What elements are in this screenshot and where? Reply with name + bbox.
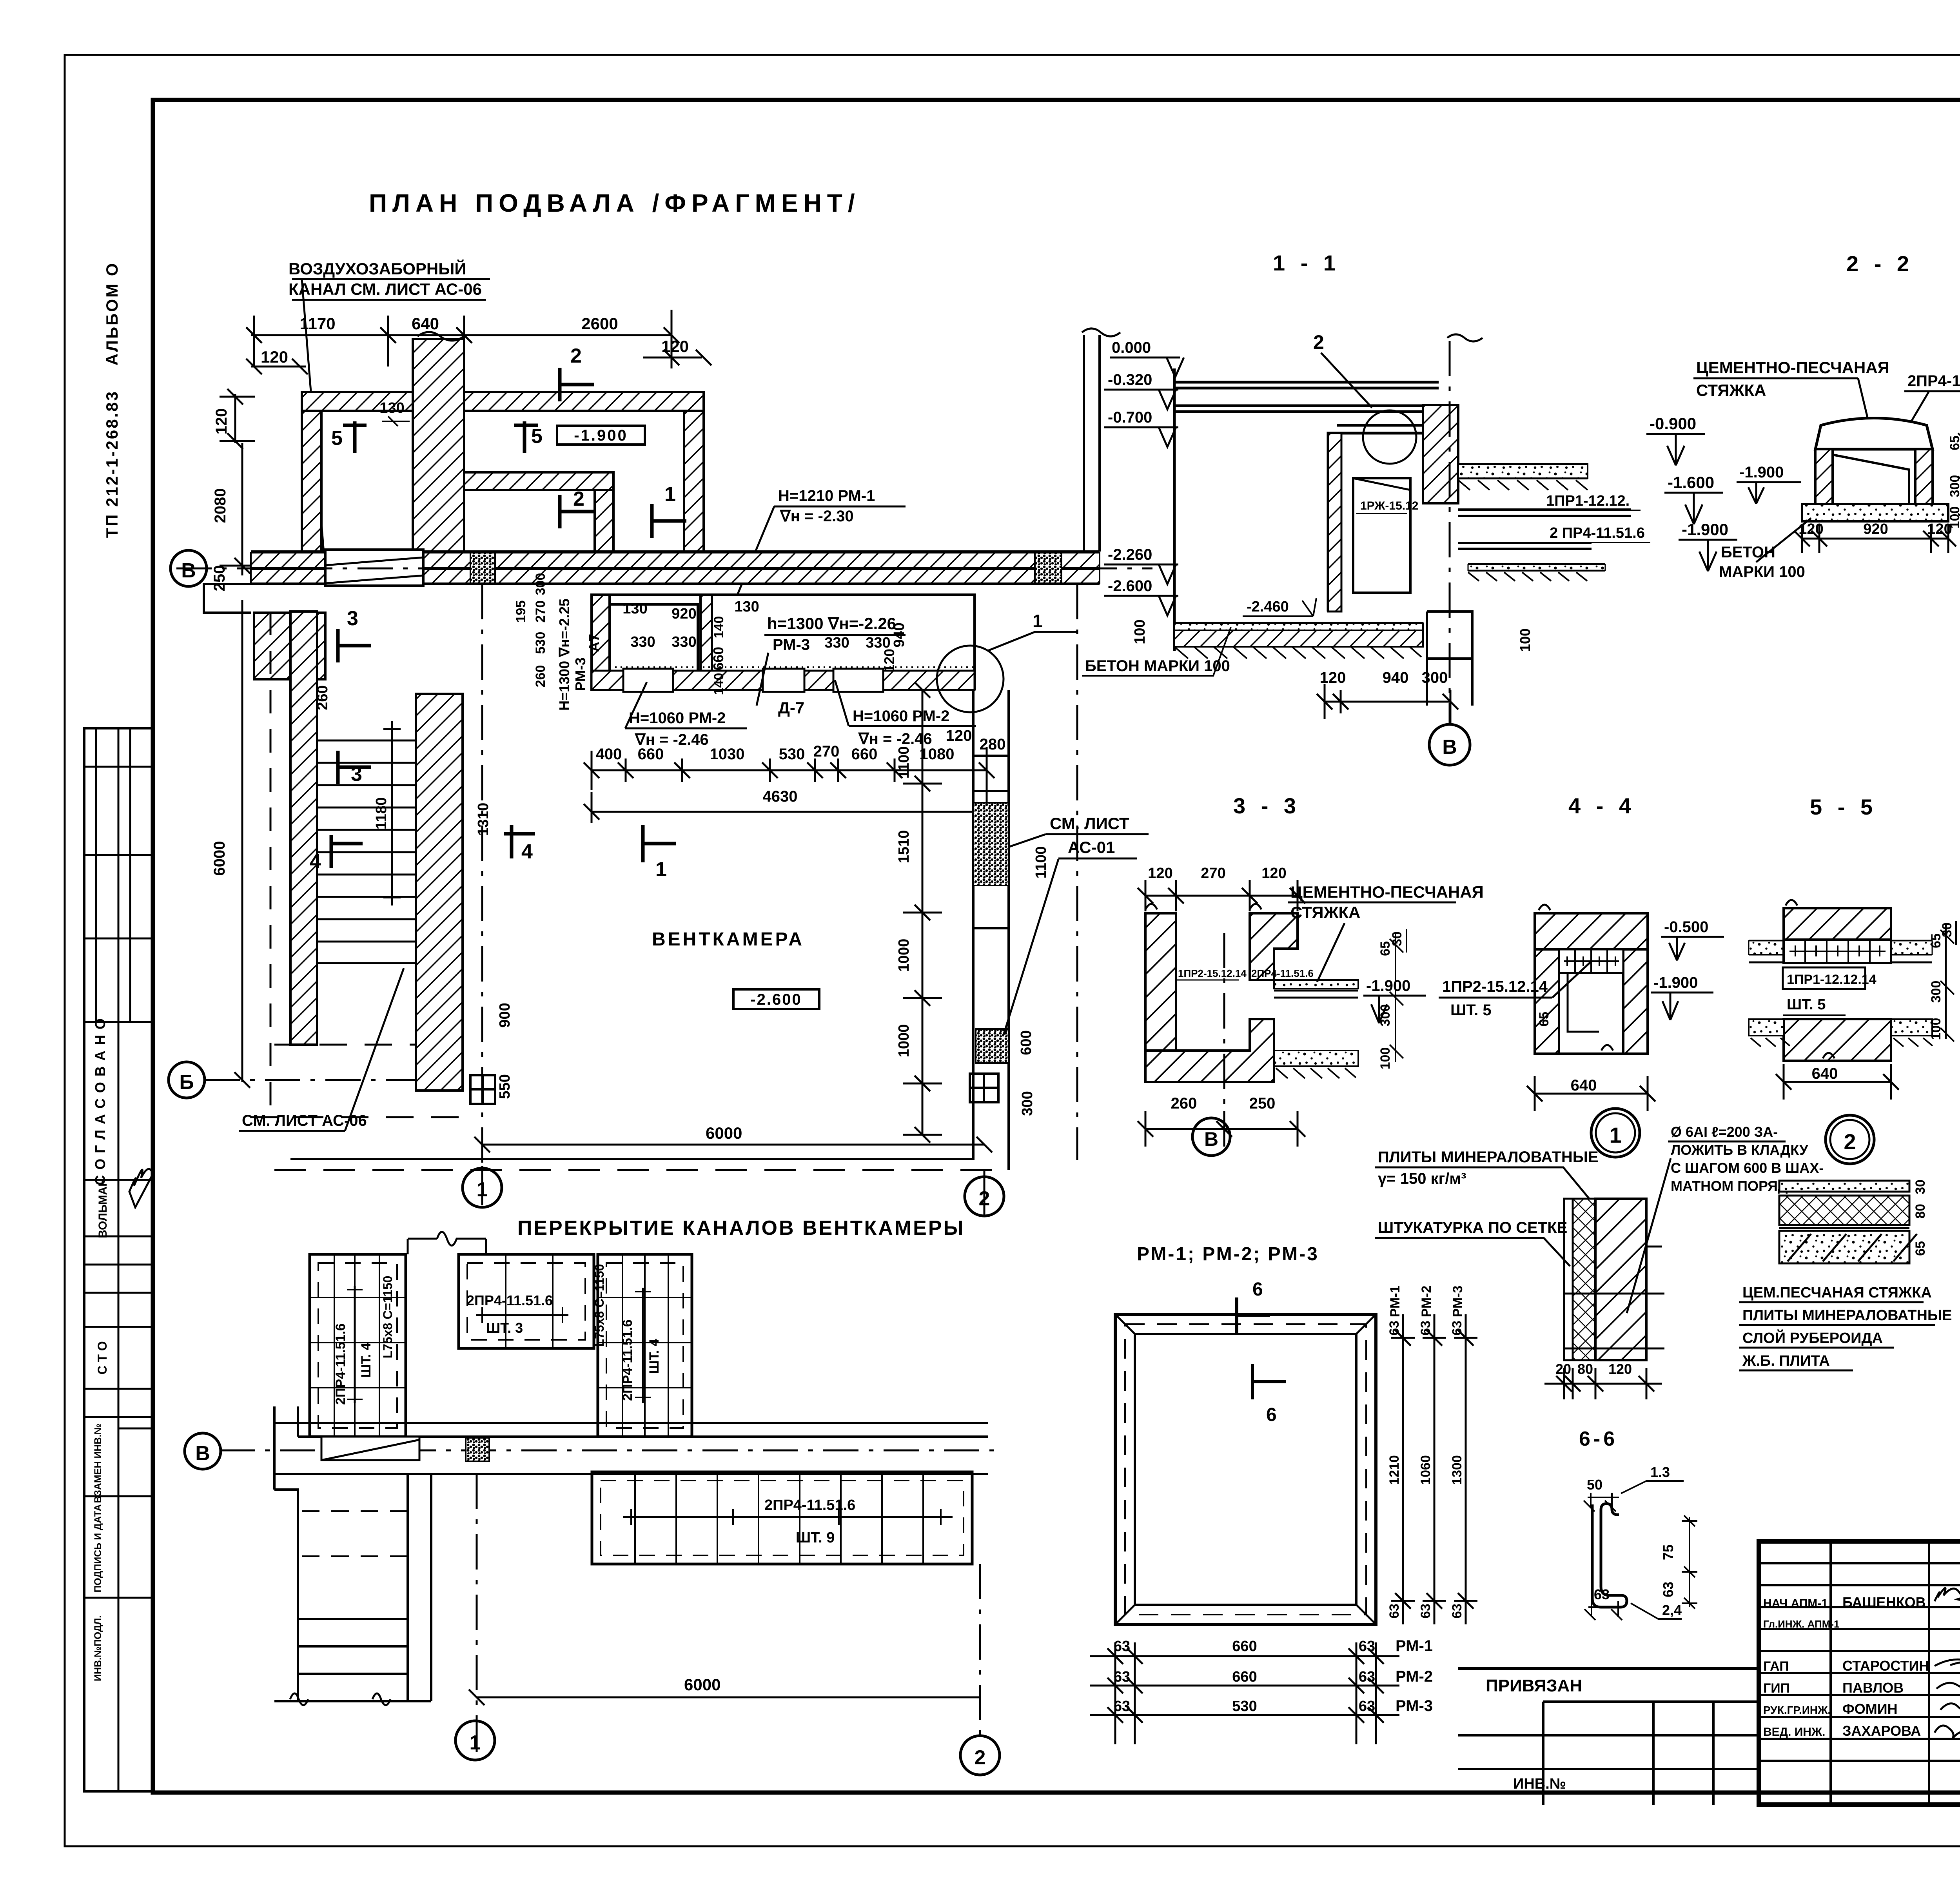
svg-text:В: В xyxy=(1204,1128,1218,1150)
svg-text:300: 300 xyxy=(1019,1091,1036,1116)
svg-text:640: 640 xyxy=(412,314,439,333)
svg-text:2,4: 2,4 xyxy=(1662,1602,1682,1618)
svg-text:660: 660 xyxy=(710,647,726,670)
svg-text:120: 120 xyxy=(1798,521,1823,537)
svg-text:-0.320: -0.320 xyxy=(1108,371,1152,388)
svg-text:ЛОЖИТЬ В КЛАДКУ: ЛОЖИТЬ В КЛАДКУ xyxy=(1671,1142,1808,1158)
svg-text:∇н = -2.46: ∇н = -2.46 xyxy=(858,730,932,748)
svg-text:120: 120 xyxy=(1261,865,1286,882)
svg-text:4630: 4630 xyxy=(763,788,798,805)
svg-text:ШТУКАТУРКА ПО СЕТКЕ: ШТУКАТУРКА ПО СЕТКЕ xyxy=(1378,1219,1567,1236)
svg-text:130: 130 xyxy=(622,601,647,617)
svg-text:1ПР1-12.12.14: 1ПР1-12.12.14 xyxy=(1787,972,1877,987)
svg-text:30: 30 xyxy=(1390,931,1405,946)
svg-text:ГАП: ГАП xyxy=(1763,1659,1789,1674)
svg-text:2: 2 xyxy=(573,488,584,510)
svg-text:1060: 1060 xyxy=(1418,1455,1433,1485)
svg-text:2ПР4-11.51.6: 2ПР4-11.51.6 xyxy=(333,1323,348,1405)
svg-text:600: 600 xyxy=(1018,1030,1034,1055)
svg-text:250: 250 xyxy=(1249,1095,1276,1112)
svg-text:ВОЛЬМАН: ВОЛЬМАН xyxy=(96,1178,109,1238)
svg-text:30: 30 xyxy=(1913,1179,1928,1194)
svg-text:140: 140 xyxy=(711,616,726,639)
svg-text:ГИП: ГИП xyxy=(1763,1681,1790,1696)
svg-text:ЦЕМЕНТНО-ПЕСЧАНАЯ: ЦЕМЕНТНО-ПЕСЧАНАЯ xyxy=(1696,358,1889,377)
svg-text:5: 5 xyxy=(531,425,543,448)
svg-text:ПОДПИСЬ И ДАТА: ПОДПИСЬ И ДАТА xyxy=(93,1504,103,1592)
svg-text:1ПР1-12.12.: 1ПР1-12.12. xyxy=(1546,493,1630,509)
svg-text:300: 300 xyxy=(1929,981,1944,1003)
svg-text:120: 120 xyxy=(1320,669,1346,686)
svg-text:H=1060 РМ-2: H=1060 РМ-2 xyxy=(853,708,949,725)
svg-text:С Т О: С Т О xyxy=(95,1341,109,1374)
svg-text:ЗАХАРОВА: ЗАХАРОВА xyxy=(1842,1723,1921,1739)
svg-text:1: 1 xyxy=(664,483,676,506)
svg-text:120: 120 xyxy=(946,727,972,744)
svg-text:2 - 2: 2 - 2 xyxy=(1846,251,1914,276)
svg-text:1100: 1100 xyxy=(1033,846,1049,878)
svg-text:ШТ. 3: ШТ. 3 xyxy=(486,1320,523,1336)
svg-text:63: 63 xyxy=(1359,1698,1375,1715)
svg-text:ШТ. 4: ШТ. 4 xyxy=(359,1343,374,1377)
svg-text:6: 6 xyxy=(1252,1279,1263,1300)
svg-text:СМ. ЛИСТ: СМ. ЛИСТ xyxy=(1050,814,1129,833)
svg-text:-2.600: -2.600 xyxy=(1108,577,1152,595)
svg-text:ЦЕМ.ПЕСЧАНАЯ СТЯЖКА: ЦЕМ.ПЕСЧАНАЯ СТЯЖКА xyxy=(1742,1285,1932,1301)
svg-text:900: 900 xyxy=(497,1003,513,1027)
svg-text:63: 63 xyxy=(1359,1638,1375,1655)
svg-text:А7: А7 xyxy=(586,634,602,652)
svg-text:6000: 6000 xyxy=(211,841,228,876)
svg-text:С О Г Л А С О В А Н О: С О Г Л А С О В А Н О xyxy=(92,1018,108,1185)
svg-text:5 - 5: 5 - 5 xyxy=(1810,795,1877,819)
svg-text:260: 260 xyxy=(314,685,331,710)
svg-text:530: 530 xyxy=(1232,1698,1257,1715)
svg-text:660: 660 xyxy=(1232,1638,1257,1655)
svg-text:РМ-2: РМ-2 xyxy=(1396,1668,1433,1685)
svg-text:ИНВ.№: ИНВ.№ xyxy=(1513,1776,1566,1792)
svg-text:В: В xyxy=(195,1442,210,1465)
svg-text:РМ-1: РМ-1 xyxy=(1388,1286,1403,1317)
svg-text:γ= 150 кг/м³: γ= 150 кг/м³ xyxy=(1378,1170,1466,1187)
svg-text:75: 75 xyxy=(1660,1544,1676,1560)
svg-text:3: 3 xyxy=(351,763,362,786)
svg-text:1: 1 xyxy=(470,1731,481,1754)
svg-text:270: 270 xyxy=(1201,865,1225,882)
svg-text:1080: 1080 xyxy=(920,746,955,763)
svg-text:БАШЕНКОВ: БАШЕНКОВ xyxy=(1842,1594,1926,1610)
svg-text:63: 63 xyxy=(1594,1586,1610,1602)
svg-text:300: 300 xyxy=(533,573,548,595)
svg-text:-1.900: -1.900 xyxy=(1682,520,1728,539)
svg-text:-0.900: -0.900 xyxy=(1650,414,1696,433)
svg-text:ПЛИТЫ МИНЕРАЛОВАТНЫЕ: ПЛИТЫ МИНЕРАЛОВАТНЫЕ xyxy=(1378,1149,1599,1166)
svg-text:РМ-2: РМ-2 xyxy=(1419,1286,1434,1317)
svg-text:550: 550 xyxy=(497,1074,513,1099)
svg-text:ВОЗДУХОЗАБОРНЫЙ: ВОЗДУХОЗАБОРНЫЙ xyxy=(289,259,466,278)
svg-text:1510: 1510 xyxy=(896,830,912,864)
svg-text:2: 2 xyxy=(975,1746,986,1769)
svg-text:2: 2 xyxy=(570,345,582,367)
svg-text:В: В xyxy=(1442,736,1457,758)
svg-text:-1.900: -1.900 xyxy=(1739,464,1784,481)
svg-text:1: 1 xyxy=(1033,611,1043,631)
svg-text:63: 63 xyxy=(1387,1321,1402,1335)
svg-text:130: 130 xyxy=(379,400,404,416)
svg-text:6000: 6000 xyxy=(706,1124,742,1142)
svg-text:530: 530 xyxy=(533,632,548,654)
svg-text:2ПР4-11.51.6: 2ПР4-11.51.6 xyxy=(1251,967,1314,979)
svg-text:63: 63 xyxy=(1114,1698,1130,1715)
svg-text:-0.500: -0.500 xyxy=(1664,918,1708,936)
svg-text:100: 100 xyxy=(1947,506,1960,529)
svg-text:300: 300 xyxy=(1422,669,1448,686)
svg-text:В: В xyxy=(181,559,196,582)
svg-text:63: 63 xyxy=(1114,1638,1130,1655)
svg-text:63: 63 xyxy=(1114,1669,1130,1685)
svg-text:H=1210 РМ-1: H=1210 РМ-1 xyxy=(778,487,875,504)
svg-text:L75х8 С=1150: L75х8 С=1150 xyxy=(381,1276,395,1359)
svg-text:РМ-1: РМ-1 xyxy=(1396,1637,1433,1655)
svg-text:ЦЕМЕНТНО-ПЕСЧАНАЯ: ЦЕМЕНТНО-ПЕСЧАНАЯ xyxy=(1290,883,1484,901)
svg-text:30: 30 xyxy=(1940,922,1955,937)
svg-text:-2.260: -2.260 xyxy=(1108,546,1152,563)
svg-text:100: 100 xyxy=(1517,628,1533,652)
svg-text:920: 920 xyxy=(671,606,696,622)
svg-text:2ПР4-11.51.6: 2ПР4-11.51.6 xyxy=(764,1497,855,1513)
svg-text:120: 120 xyxy=(1608,1361,1632,1377)
svg-text:2: 2 xyxy=(1844,1129,1856,1154)
svg-text:280: 280 xyxy=(980,736,1006,753)
svg-text:300: 300 xyxy=(1378,1004,1393,1027)
svg-text:80: 80 xyxy=(1577,1361,1593,1377)
svg-text:СТАРОСТИН: СТАРОСТИН xyxy=(1842,1658,1929,1674)
svg-text:1170: 1170 xyxy=(299,314,335,333)
svg-text:640: 640 xyxy=(1571,1077,1597,1094)
svg-text:3 - 3: 3 - 3 xyxy=(1233,793,1301,818)
svg-text:63: 63 xyxy=(1418,1321,1433,1335)
svg-text:Гл.ИНЖ. АПМ-1: Гл.ИНЖ. АПМ-1 xyxy=(1763,1618,1840,1630)
svg-text:ШТ. 5: ШТ. 5 xyxy=(1450,1002,1492,1019)
svg-text:63: 63 xyxy=(1450,1321,1465,1335)
svg-text:530: 530 xyxy=(779,746,805,763)
svg-text:65: 65 xyxy=(1537,1012,1552,1027)
svg-text:ПЛАН ПОДВАЛА /ФРАГМЕНТ/: ПЛАН ПОДВАЛА /ФРАГМЕНТ/ xyxy=(369,189,860,217)
svg-text:ПЛИТЫ МИНЕРАЛОВАТНЫЕ: ПЛИТЫ МИНЕРАЛОВАТНЫЕ xyxy=(1742,1307,1952,1324)
svg-text:РМ-1; РМ-2; РМ-3: РМ-1; РМ-2; РМ-3 xyxy=(1137,1244,1319,1265)
svg-text:ПЕРЕКРЫТИЕ КАНАЛОВ ВЕНТКАМЕР: ПЕРЕКРЫТИЕ КАНАЛОВ ВЕНТКАМЕРЫ xyxy=(517,1217,965,1239)
svg-text:НАЧ АПМ-1: НАЧ АПМ-1 xyxy=(1763,1597,1828,1610)
svg-text:100: 100 xyxy=(1132,619,1148,644)
svg-text:РУК.ГР.ИНЖ.: РУК.ГР.ИНЖ. xyxy=(1763,1704,1831,1716)
svg-text:2080: 2080 xyxy=(212,488,229,523)
svg-text:∇н = -2.30: ∇н = -2.30 xyxy=(779,508,854,525)
svg-text:5: 5 xyxy=(331,427,343,450)
svg-text:2: 2 xyxy=(1313,331,1324,353)
svg-text:330: 330 xyxy=(630,634,655,650)
svg-text:120: 120 xyxy=(661,337,689,356)
svg-text:СЛОЙ РУБЕРОИДА: СЛОЙ РУБЕРОИДА xyxy=(1742,1329,1883,1346)
svg-text:1300: 1300 xyxy=(1450,1455,1465,1485)
svg-text:80: 80 xyxy=(1913,1204,1928,1219)
svg-text:-1.900: -1.900 xyxy=(574,427,628,444)
svg-text:2600: 2600 xyxy=(581,314,618,333)
svg-text:195: 195 xyxy=(514,601,528,623)
svg-text:1210: 1210 xyxy=(1387,1455,1402,1485)
svg-text:Ø 6АI ℓ=200 ЗА-: Ø 6АI ℓ=200 ЗА- xyxy=(1671,1124,1778,1140)
svg-text:СТЯЖКА: СТЯЖКА xyxy=(1290,903,1361,922)
svg-text:130: 130 xyxy=(734,599,759,615)
svg-text:940: 940 xyxy=(1383,669,1409,686)
svg-text:-0.700: -0.700 xyxy=(1108,409,1152,426)
svg-text:2ПР4-11.51.6: 2ПР4-11.51.6 xyxy=(620,1319,635,1401)
svg-text:50: 50 xyxy=(1587,1477,1602,1493)
svg-text:640: 640 xyxy=(1812,1065,1838,1082)
svg-text:1310: 1310 xyxy=(475,803,492,836)
svg-text:660: 660 xyxy=(638,746,664,763)
svg-text:-1.600: -1.600 xyxy=(1668,473,1714,492)
svg-text:ИНВ.№ПОДЛ.: ИНВ.№ПОДЛ. xyxy=(93,1615,103,1681)
svg-text:1ПР2-15.12.14: 1ПР2-15.12.14 xyxy=(1178,967,1247,979)
svg-text:ПРИВЯЗАН: ПРИВЯЗАН xyxy=(1486,1676,1582,1695)
svg-text:65: 65 xyxy=(1913,1241,1928,1256)
svg-text:6-6: 6-6 xyxy=(1579,1428,1618,1450)
svg-text:ПАВЛОВ: ПАВЛОВ xyxy=(1842,1680,1904,1696)
svg-text:260: 260 xyxy=(1171,1095,1197,1112)
svg-text:660: 660 xyxy=(1232,1669,1257,1685)
svg-text:120: 120 xyxy=(881,649,897,672)
svg-text:63: 63 xyxy=(1660,1582,1676,1597)
svg-text:-2.600: -2.600 xyxy=(750,991,802,1008)
svg-text:65: 65 xyxy=(1947,435,1960,450)
svg-text:АС-01: АС-01 xyxy=(1068,838,1115,856)
svg-text:ТП 212-1-268.83 АЛЬБОМ О: ТП 212-1-268.83 АЛЬБОМ О xyxy=(103,262,121,538)
svg-text:РМ-3: РМ-3 xyxy=(1450,1286,1465,1317)
svg-text:СТЯЖКА: СТЯЖКА xyxy=(1696,381,1766,399)
svg-text:63: 63 xyxy=(1418,1604,1433,1619)
svg-text:330: 330 xyxy=(824,635,849,651)
svg-text:400: 400 xyxy=(596,746,622,763)
svg-text:L75х8 С=1150: L75х8 С=1150 xyxy=(592,1264,606,1347)
svg-text:6000: 6000 xyxy=(684,1675,720,1694)
svg-text:260: 260 xyxy=(533,665,548,688)
svg-text:КАНАЛ СМ. ЛИСТ АС-06: КАНАЛ СМ. ЛИСТ АС-06 xyxy=(289,280,482,298)
svg-text:Ж.Б. ПЛИТА: Ж.Б. ПЛИТА xyxy=(1742,1353,1830,1369)
svg-text:2ПР4-11.51.6: 2ПР4-11.51.6 xyxy=(1907,372,1960,390)
svg-text:ФОМИН: ФОМИН xyxy=(1842,1701,1898,1717)
svg-text:ШТ. 9: ШТ. 9 xyxy=(796,1530,835,1546)
svg-text:6: 6 xyxy=(1266,1404,1277,1425)
svg-text:1 - 1: 1 - 1 xyxy=(1273,250,1340,275)
svg-text:20: 20 xyxy=(1555,1361,1571,1377)
svg-text:940: 940 xyxy=(891,622,907,647)
svg-text:1000: 1000 xyxy=(896,1024,912,1058)
svg-text:-1.900: -1.900 xyxy=(1653,974,1698,991)
svg-text:МАРКИ 100: МАРКИ 100 xyxy=(1719,563,1805,581)
svg-text:1030: 1030 xyxy=(710,746,745,763)
svg-text:3: 3 xyxy=(347,607,358,630)
svg-text:300: 300 xyxy=(1947,475,1960,497)
svg-text:270: 270 xyxy=(533,601,548,623)
svg-text:1: 1 xyxy=(1609,1123,1621,1147)
svg-text:4: 4 xyxy=(310,850,321,873)
svg-text:1: 1 xyxy=(655,858,667,881)
svg-text:Б: Б xyxy=(179,1071,194,1094)
svg-text:2 ПР4-11.51.6: 2 ПР4-11.51.6 xyxy=(1550,525,1645,541)
svg-text:БЕТОН МАРКИ 100: БЕТОН МАРКИ 100 xyxy=(1085,657,1230,675)
svg-text:ШТ. 5: ШТ. 5 xyxy=(1787,996,1826,1013)
svg-text:0.000: 0.000 xyxy=(1112,339,1151,356)
svg-text:100: 100 xyxy=(1378,1047,1393,1070)
svg-text:920: 920 xyxy=(1863,521,1888,537)
svg-text:63: 63 xyxy=(1359,1669,1375,1685)
svg-text:63: 63 xyxy=(1450,1604,1465,1619)
svg-text:2ПР4-11.51.6: 2ПР4-11.51.6 xyxy=(466,1292,553,1308)
svg-text:РМ-3: РМ-3 xyxy=(1396,1697,1433,1715)
svg-text:1180: 1180 xyxy=(373,797,390,829)
svg-text:ВЗАМЕН ИНВ.№: ВЗАМЕН ИНВ.№ xyxy=(93,1424,103,1503)
svg-text:1ПР2-15.12.14: 1ПР2-15.12.14 xyxy=(1442,978,1548,995)
svg-text:-1.900: -1.900 xyxy=(1366,977,1410,994)
svg-text:ВЕД. ИНЖ.: ВЕД. ИНЖ. xyxy=(1763,1726,1825,1738)
svg-text:63: 63 xyxy=(1387,1604,1402,1619)
svg-text:4: 4 xyxy=(521,840,533,863)
svg-text:РМ-3: РМ-3 xyxy=(773,636,810,653)
svg-text:H=1300 ∇н=-2.25: H=1300 ∇н=-2.25 xyxy=(556,599,572,711)
svg-text:1РЖ-15.12: 1РЖ-15.12 xyxy=(1360,499,1418,512)
svg-text:-2.460: -2.460 xyxy=(1247,599,1289,615)
svg-text:РМ-3: РМ-3 xyxy=(572,657,588,691)
svg-text:С ШАГОМ 600 В ШАХ-: С ШАГОМ 600 В ШАХ- xyxy=(1671,1160,1824,1176)
svg-text:660: 660 xyxy=(851,746,878,763)
svg-text:H=1060 РМ-2: H=1060 РМ-2 xyxy=(629,709,726,727)
svg-text:h=1300 ∇н=-2.26: h=1300 ∇н=-2.26 xyxy=(767,614,896,633)
svg-text:330: 330 xyxy=(671,634,696,650)
svg-text:1000: 1000 xyxy=(896,939,912,972)
svg-text:330: 330 xyxy=(866,635,890,651)
svg-text:ВЕНТКАМЕРА: ВЕНТКАМЕРА xyxy=(652,929,804,950)
svg-text:2: 2 xyxy=(979,1187,990,1210)
svg-text:1.3: 1.3 xyxy=(1650,1464,1670,1480)
svg-text:120: 120 xyxy=(213,408,230,435)
svg-text:Д-7: Д-7 xyxy=(778,699,804,717)
svg-text:1100: 1100 xyxy=(896,746,912,778)
svg-text:ШТ. 4: ШТ. 4 xyxy=(647,1339,662,1374)
svg-text:120: 120 xyxy=(261,348,288,366)
svg-text:1: 1 xyxy=(477,1178,488,1201)
svg-text:140: 140 xyxy=(711,673,726,695)
svg-text:120: 120 xyxy=(1148,865,1172,882)
svg-text:4 - 4: 4 - 4 xyxy=(1568,793,1636,818)
svg-text:270: 270 xyxy=(813,743,840,760)
